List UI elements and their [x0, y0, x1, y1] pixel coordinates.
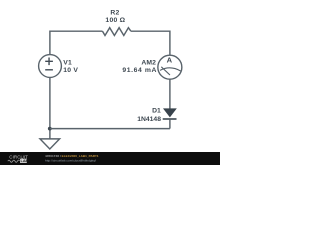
wire bottom [50, 128, 170, 130]
wire top-right (resistor to ammeter) [131, 31, 170, 55]
meter scale arc [160, 68, 181, 71]
svg-text:http://circuitlab.com/c/pcs8fs: http://circuitlab.com/c/pcs8fsbkdgkqf [45, 159, 96, 163]
svg-text:100 Ω: 100 Ω [105, 17, 125, 24]
svg-text:1N4148: 1N4148 [137, 116, 161, 123]
svg-text:91.64 mA: 91.64 mA [122, 67, 157, 74]
svg-text:V1: V1 [63, 59, 72, 66]
wire V1 bottom to ground [49, 78, 51, 139]
svg-text:LAB: LAB [21, 159, 29, 163]
junction node [48, 127, 52, 131]
ground [40, 139, 60, 149]
diode cathode bar [163, 118, 177, 120]
voltage source V1 [39, 55, 62, 78]
logo waveform squiggle [8, 160, 20, 162]
svg-text:A: A [167, 56, 173, 65]
wire top-left (V1 top to resistor) [50, 31, 103, 54]
meter needle [161, 67, 170, 75]
resistor R2 [103, 28, 131, 36]
diode D1 [164, 109, 177, 117]
wire ammeter to diode [169, 79, 171, 109]
svg-text:44501748 / ELEC2400_LAB1_PART1: 44501748 / ELEC2400_LAB1_PART1 [45, 154, 99, 158]
logo LAB box [20, 159, 27, 163]
wire diode to bottom [169, 120, 171, 129]
svg-text:R2: R2 [110, 10, 119, 17]
svg-text:AM2: AM2 [141, 60, 156, 67]
ammeter AM2 [158, 55, 182, 79]
svg-text:D1: D1 [152, 108, 161, 115]
footer bar [0, 152, 220, 165]
svg-text:10 V: 10 V [63, 67, 78, 74]
